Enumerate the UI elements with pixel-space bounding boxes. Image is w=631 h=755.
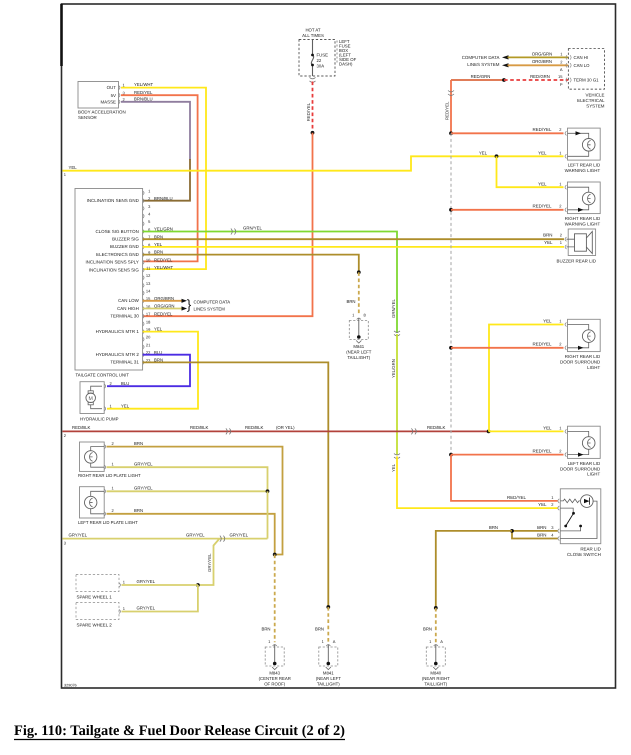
svg-text:21: 21	[146, 342, 151, 347]
svg-text:YEL: YEL	[543, 425, 552, 430]
svg-text:BODY ACCELERATION: BODY ACCELERATION	[78, 110, 126, 115]
svg-text:15: 15	[558, 74, 563, 79]
svg-text:HYDRAULICS MTR 2: HYDRAULICS MTR 2	[96, 352, 140, 357]
svg-text:SPARE WHEEL 1: SPARE WHEEL 1	[77, 594, 113, 599]
svg-text:RIGHT REAR LID: RIGHT REAR LID	[565, 216, 600, 221]
wire RED/GRN to TERM 30 G1	[451, 74, 568, 82]
svg-text:YEL: YEL	[543, 318, 552, 323]
wire YEL junction to right rear lid door surround light pin 1	[489, 325, 564, 432]
svg-text:ELECTRICAL: ELECTRICAL	[577, 98, 605, 103]
svg-text:BRN: BRN	[543, 232, 552, 237]
wire BRN close switch pins 3,4 to ground M840	[423, 525, 558, 643]
vehicle electrical system	[558, 49, 605, 109]
svg-text:YEL: YEL	[69, 165, 78, 170]
svg-text:14: 14	[146, 289, 151, 294]
wire RED/YEL to left rear lid warning light pin 2	[451, 132, 564, 134]
svg-text:GRY/YEL: GRY/YEL	[230, 533, 249, 538]
svg-text:TERMINAL 30: TERMINAL 30	[110, 314, 139, 319]
svg-text:M: M	[89, 396, 93, 402]
node: splice GRY/YEL	[196, 583, 200, 587]
svg-text:RED/BLK: RED/BLK	[190, 425, 209, 430]
svg-text:5V: 5V	[111, 93, 116, 98]
node: splice RED/YEL	[449, 453, 453, 457]
ground M841 (near left taillight) bottom	[316, 639, 341, 686]
svg-text:TERMINAL 31: TERMINAL 31	[110, 360, 139, 365]
svg-text:COMPUTER DATA: COMPUTER DATA	[194, 299, 231, 304]
svg-text:ELECTRONICS GND: ELECTRONICS GND	[96, 252, 139, 257]
svg-text:BRN/BLU: BRN/BLU	[154, 196, 173, 201]
svg-text:TAILLIGHT): TAILLIGHT)	[424, 681, 447, 686]
svg-text:FUSE: FUSE	[317, 53, 329, 58]
ground M840 (near right taillight)	[422, 639, 450, 686]
svg-text:RED/BLK: RED/BLK	[245, 425, 264, 430]
svg-text:RED/YEL: RED/YEL	[507, 495, 527, 500]
svg-text:(CENTER REAR: (CENTER REAR	[259, 676, 291, 681]
node: splice RED/YEL	[449, 131, 453, 135]
node: splice BRN	[357, 270, 361, 274]
svg-text:GRY/YEL: GRY/YEL	[137, 606, 156, 611]
label YEL left surround light pin 1	[543, 425, 562, 430]
wire RED/YEL to rear lid close switch pin 1	[451, 455, 558, 501]
svg-text:RED/YEL: RED/YEL	[306, 102, 311, 121]
svg-text:YEL: YEL	[544, 240, 553, 245]
svg-text:REAR LID: REAR LID	[580, 547, 600, 552]
svg-text:DOOR SURROUND: DOOR SURROUND	[560, 360, 600, 365]
wire YEL branch to right rear lid warning light pin 1	[497, 156, 564, 187]
computer data lines system (mid)	[187, 297, 231, 312]
svg-text:M843: M843	[269, 671, 280, 676]
svg-text:}: }	[187, 297, 192, 312]
wire (gray link) RED/YEL continuation	[450, 133, 452, 454]
svg-text:(NEAR LEFT: (NEAR LEFT	[346, 349, 371, 354]
svg-text:BRN: BRN	[134, 508, 143, 513]
svg-text:GRY/YEL: GRY/YEL	[207, 553, 212, 572]
svg-text:SYSTEM: SYSTEM	[586, 104, 605, 109]
svg-text:CAN LO: CAN LO	[574, 63, 591, 68]
wire RED/YEL vertical distribution	[444, 80, 563, 501]
svg-text:CLOSE SWITCH: CLOSE SWITCH	[567, 552, 601, 557]
svg-text:BUZZER REAR LID: BUZZER REAR LID	[557, 258, 596, 263]
svg-text:TERM 30 G1: TERM 30 G1	[574, 78, 600, 83]
node: splice RED/YEL	[449, 208, 453, 212]
buzzer rear lid	[557, 229, 596, 263]
svg-text:RED/BLK: RED/BLK	[427, 425, 446, 430]
svg-text:WARNING LIGHT: WARNING LIGHT	[565, 222, 601, 227]
svg-text:BUZZER GND: BUZZER GND	[110, 244, 139, 249]
svg-text:BRN: BRN	[423, 627, 432, 632]
node: splice BRN	[273, 553, 277, 557]
wire GRY/YEL plate lights and page connector 3	[63, 467, 270, 545]
svg-text:RED/YEL: RED/YEL	[533, 342, 553, 347]
node: splice RED/YEL	[449, 346, 453, 350]
right rear lid plate light	[78, 441, 153, 478]
svg-text:YEL: YEL	[391, 463, 396, 472]
fuse F22 (left fuse box, hot at all times)	[299, 28, 357, 83]
svg-text:A: A	[560, 67, 563, 72]
svg-text:RED/BLK: RED/BLK	[72, 425, 91, 430]
svg-text:A: A	[333, 639, 336, 644]
svg-text:RED/YEL: RED/YEL	[533, 127, 553, 132]
svg-text:LINES SYSTEM: LINES SYSTEM	[467, 62, 500, 67]
svg-text:ALL TIMES: ALL TIMES	[302, 33, 324, 38]
left rear lid warning light	[565, 128, 601, 173]
wire ORG/BRN CAN LO	[508, 59, 569, 65]
svg-text:ORG/GRN: ORG/GRN	[532, 51, 553, 56]
svg-text:M841: M841	[353, 344, 364, 349]
svg-text:LEFT REAR LID: LEFT REAR LID	[568, 163, 600, 168]
label YEL buzzer pin 1	[544, 240, 563, 245]
rear lid close switch	[558, 489, 601, 557]
svg-text:GRY/YEL: GRY/YEL	[186, 533, 205, 538]
svg-text:VEHICLE: VEHICLE	[586, 93, 605, 98]
svg-text:BRN: BRN	[489, 525, 498, 530]
svg-text:M841: M841	[323, 671, 334, 676]
svg-text:GRY/YEL: GRY/YEL	[137, 579, 156, 584]
hydraulic pump	[80, 381, 119, 422]
svg-text:YEL: YEL	[538, 182, 547, 187]
svg-text:RIGHT REAR LID PLATE LIGHT: RIGHT REAR LID PLATE LIGHT	[78, 473, 141, 478]
svg-text:YEL/WHT: YEL/WHT	[134, 82, 153, 87]
svg-text:MASSE: MASSE	[100, 99, 116, 104]
svg-text:CAN HIGH: CAN HIGH	[117, 306, 139, 311]
svg-text:HYDRAULICS MTR 1: HYDRAULICS MTR 1	[96, 329, 140, 334]
svg-text:HOT AT: HOT AT	[305, 28, 320, 33]
svg-text:GRY/YEL: GRY/YEL	[69, 533, 88, 538]
wire BRN plate lights to ground M843	[107, 447, 283, 643]
svg-text:LIGHT: LIGHT	[587, 472, 600, 477]
svg-text:HYDRAULIC PUMP: HYDRAULIC PUMP	[80, 417, 119, 422]
svg-text:BRN/BLU: BRN/BLU	[134, 96, 153, 101]
svg-text:OUT: OUT	[107, 85, 117, 90]
svg-text:DOOR SURROUND: DOOR SURROUND	[560, 466, 600, 471]
svg-text:RIGHT REAR LID: RIGHT REAR LID	[565, 354, 600, 359]
ground M843 (center rear of roof)	[259, 639, 291, 686]
wire YEL junction to left rear lid door surround light pin 1	[489, 430, 564, 432]
node: splice RED/GRN	[502, 78, 506, 82]
svg-text:CAN HI: CAN HI	[574, 55, 589, 60]
svg-text:TAILLIGHT): TAILLIGHT)	[317, 681, 340, 686]
svg-text:LIGHT: LIGHT	[587, 365, 600, 370]
wire RED/YEL (dashed) from fuse 22 down	[306, 82, 314, 135]
node: RED/BLK to YEL junction	[487, 430, 491, 434]
svg-text:YEL: YEL	[121, 403, 130, 408]
wire BLU pin 22 to hydraulic pump pin 2	[107, 355, 190, 387]
svg-text:TAILGATE CONTROL UNIT: TAILGATE CONTROL UNIT	[76, 373, 130, 378]
svg-text:P: P	[560, 82, 563, 87]
drawing number	[64, 684, 77, 688]
svg-text:GRN/YEL: GRN/YEL	[391, 299, 396, 318]
svg-text:13: 13	[146, 281, 151, 286]
node: splice BRN	[434, 606, 438, 610]
wire ORG/GRN CAN HI	[508, 51, 569, 57]
wire BRN pin 23 to ground M841 (bottom)	[143, 362, 331, 642]
wire YEL/WHT sensor OUT to control unit pin 11	[121, 82, 206, 269]
svg-text:RED/YEL: RED/YEL	[533, 449, 553, 454]
wire ORG/GRN pin 16 CAN HIGH to computer data lines	[143, 306, 187, 310]
svg-text:BRN: BRN	[134, 441, 143, 446]
label YEL right surround light pin 1	[543, 318, 562, 323]
wire YEL pin 19 to hydraulic pump pin 1	[107, 332, 198, 409]
svg-text:SPARE WHEEL 2: SPARE WHEEL 2	[77, 622, 113, 627]
wire GRY/YEL to spare wheels	[122, 539, 220, 612]
svg-text:RED/YEL: RED/YEL	[533, 204, 553, 209]
svg-text:BRN: BRN	[315, 627, 324, 632]
svg-text:ORG/BRN: ORG/BRN	[532, 59, 552, 64]
svg-text:YEL: YEL	[538, 502, 547, 507]
wire YEL pin 8 to buzzer	[143, 246, 564, 248]
svg-text:(NEAR LEFT: (NEAR LEFT	[316, 676, 341, 681]
svg-text:BRN: BRN	[537, 525, 546, 530]
wire BRN pin 7 to buzzer	[143, 238, 564, 240]
node: splice BRN	[326, 605, 330, 609]
svg-text:22: 22	[317, 58, 322, 63]
svg-text:CAN LOW: CAN LOW	[118, 298, 140, 303]
figure caption	[14, 723, 345, 740]
right rear lid door surround light	[560, 319, 600, 370]
svg-text:GRY/YEL: GRY/YEL	[134, 486, 153, 491]
svg-text:A: A	[440, 639, 443, 644]
wire RED/YEL to right rear lid door surround light pin 2	[451, 347, 564, 349]
svg-text:DASH): DASH)	[339, 61, 353, 66]
svg-text:INCLINATION SENS SIG: INCLINATION SENS SIG	[89, 267, 140, 272]
svg-text:OF ROOF): OF ROOF)	[264, 681, 286, 686]
spare wheel 1	[76, 575, 126, 600]
svg-text:20: 20	[146, 335, 151, 340]
svg-text:CLOSE SIG BUTTON: CLOSE SIG BUTTON	[95, 229, 138, 234]
wire YEL/GRN - GRN/YEL - YEL from pin 6 to rear lid close switch pin 2	[143, 225, 558, 508]
wire RED/BLK from page connector 2 across page	[63, 425, 491, 438]
svg-text:LEFT REAR LID PLATE LIGHT: LEFT REAR LID PLATE LIGHT	[78, 520, 138, 525]
wire RED/YEL sensor 5V to control unit pin 10	[121, 90, 198, 262]
node: splice BRN	[510, 529, 514, 533]
svg-text:12: 12	[146, 273, 151, 278]
svg-text:WARNING LIGHT: WARNING LIGHT	[565, 168, 601, 173]
node: splice on RED/YEL below fuse	[311, 131, 315, 135]
svg-text:GRN/YEL: GRN/YEL	[243, 225, 262, 230]
svg-text:BLU: BLU	[121, 381, 129, 386]
wire YEL from page connector 1 to rear lid warning lights	[63, 151, 564, 188]
svg-text:RED/GRN: RED/GRN	[530, 74, 550, 79]
svg-text:LINES SYSTEM: LINES SYSTEM	[194, 307, 226, 312]
wire ORG/BRN pin 15 CAN LOW to computer data lines	[143, 299, 187, 303]
svg-text:SENSOR: SENSOR	[78, 115, 97, 120]
svg-text:RED/GRN: RED/GRN	[471, 74, 491, 79]
node: splice GRY/YEL	[266, 489, 270, 493]
tailgate control unit	[75, 188, 175, 377]
svg-text:Fig. 110: Tailgate & Fuel Door: Fig. 110: Tailgate & Fuel Door Release C…	[14, 723, 345, 739]
wire RED/YEL to right rear lid warning light pin 2	[451, 209, 564, 211]
wire BRN/BLU sensor MASSE to control unit pin 2	[121, 96, 190, 200]
svg-text:GRY/YEL: GRY/YEL	[134, 462, 153, 467]
svg-text:RED/YEL: RED/YEL	[134, 90, 153, 95]
svg-text:BRN: BRN	[346, 299, 355, 304]
left rear lid door surround light	[560, 426, 600, 476]
svg-text:(OR YEL): (OR YEL)	[276, 425, 295, 430]
svg-text:BRN: BRN	[261, 627, 270, 632]
svg-text:17: 17	[146, 312, 151, 317]
svg-text:YEL/GRN: YEL/GRN	[391, 359, 396, 378]
wire BRN pin 9 to ground M841	[143, 255, 361, 316]
wire RED/YEL to left rear lid door surround light pin 2	[451, 454, 564, 456]
svg-text:BRN: BRN	[537, 532, 546, 537]
left rear lid plate light	[78, 486, 153, 525]
svg-text:INCLINATION SENS SPLY: INCLINATION SENS SPLY	[85, 260, 138, 265]
label YEL close switch pin 2	[538, 502, 554, 507]
svg-text:RED/YEL: RED/YEL	[444, 101, 449, 120]
svg-text:INCLINATION SENS GND: INCLINATION SENS GND	[87, 198, 139, 203]
node: YEL junction	[495, 154, 499, 158]
svg-text:RED/YEL: RED/YEL	[154, 311, 173, 316]
svg-text:YEL: YEL	[538, 151, 547, 156]
svg-text:329076: 329076	[64, 684, 77, 688]
svg-text:BUZZER SIG: BUZZER SIG	[112, 237, 139, 242]
svg-text:30A: 30A	[317, 64, 325, 69]
spare wheel 2	[76, 603, 126, 628]
ground M841 (near left taillight)	[346, 313, 371, 360]
right rear lid warning light	[565, 182, 601, 227]
svg-text:LEFT REAR LID: LEFT REAR LID	[568, 461, 600, 466]
svg-text:COMPUTER DATA: COMPUTER DATA	[462, 55, 500, 60]
svg-text:YEL: YEL	[479, 151, 488, 156]
computer data lines system (top)	[462, 55, 509, 67]
svg-text:M840: M840	[430, 671, 441, 676]
svg-text:RED/YEL: RED/YEL	[154, 257, 173, 262]
svg-text:(NEAR RIGHT: (NEAR RIGHT	[422, 676, 450, 681]
body acceleration sensor	[78, 82, 126, 121]
wire RED/YEL from splice to tailgate control unit pin 17 (TERMINAL 30)	[143, 133, 313, 316]
svg-text:10: 10	[146, 258, 151, 263]
svg-text:YEL/WHT: YEL/WHT	[154, 265, 173, 270]
label BRN buzzer pin 2	[543, 232, 563, 237]
svg-text:18: 18	[146, 319, 151, 324]
svg-text:TAILLIGHT): TAILLIGHT)	[347, 355, 370, 360]
